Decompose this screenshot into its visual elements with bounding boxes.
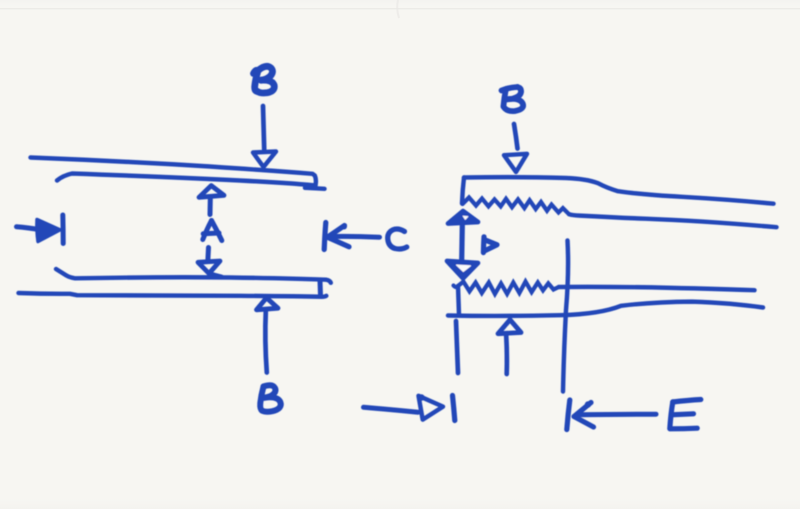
- arrow pointing up at bottom plate: [498, 320, 521, 334]
- left short tick below bottom plate: [456, 321, 458, 373]
- bottom plate lower line: [19, 293, 327, 297]
- label B (top-right): [502, 87, 524, 111]
- dimension A lower arrow (points down): [205, 248, 211, 262]
- label B (bottom-left): [260, 385, 281, 412]
- right bottom plate lower line: [448, 302, 763, 316]
- weld zigzag (top): [463, 198, 570, 215]
- bottom plate right tick: [318, 281, 324, 296]
- label B (top-left): [254, 66, 275, 93]
- left edge arrow pointing right: [17, 227, 42, 230]
- arrow from B down to top plate: [263, 106, 264, 149]
- dimension D lower arrow (points down): [447, 261, 478, 278]
- hollow arrowhead (B top-left): [253, 152, 276, 168]
- label A: [203, 221, 222, 241]
- top plate right-end stub: [305, 188, 325, 189]
- right bottom plate upper line: [559, 287, 755, 290]
- long vertical line through bottom plate: [563, 241, 568, 392]
- bottom plate upper line (with left hook): [56, 269, 331, 283]
- dimension A upper arrow (points up): [199, 186, 224, 198]
- right top plate lower line: [569, 214, 777, 227]
- hollow arrowhead (B top-right): [504, 154, 527, 172]
- weld zigzag (bottom): [454, 282, 559, 294]
- dimension C arrow pointing left: [324, 223, 326, 250]
- dimension D upper arrow (points up): [448, 211, 478, 224]
- label D: [483, 237, 497, 253]
- arrow from B (bottom) up to bottom plate: [257, 298, 279, 310]
- dimension E arrow pointing left: [567, 400, 570, 430]
- bottom-center arrow pointing right: [364, 407, 419, 412]
- label C: [388, 229, 407, 249]
- top plate upper line: [31, 158, 316, 189]
- right top plate left edge: [462, 178, 464, 204]
- left edge tick: [60, 215, 65, 244]
- top plate lower line: [57, 174, 314, 186]
- tick for bottom-center arrow: [453, 396, 455, 421]
- right bottom plate left edge: [458, 286, 459, 315]
- right top plate upper line: [464, 177, 774, 204]
- label E: [670, 400, 701, 429]
- arrow from B down to right top plate: [514, 124, 518, 149]
